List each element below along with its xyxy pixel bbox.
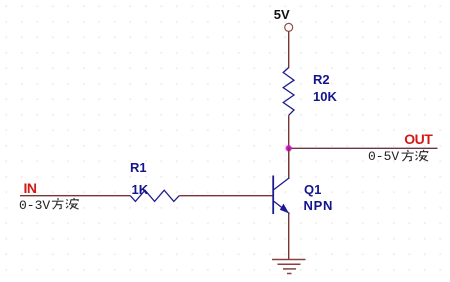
wire collector up — [288, 148, 290, 178]
CJK bo (left) — [66, 198, 79, 209]
value NPN — [304, 198, 334, 213]
wire IN to R1 — [20, 195, 130, 197]
svg-text:0-5V: 0-5V — [368, 149, 399, 164]
value 1K — [132, 182, 149, 197]
transistor Q1 collector stroke — [274, 178, 290, 190]
label R1 — [130, 160, 147, 175]
svg-text:Q1: Q1 — [304, 182, 321, 197]
junction node — [285, 145, 292, 152]
wire junction to collector — [288, 148, 290, 178]
label R2 — [313, 72, 330, 87]
label IN — [24, 180, 37, 196]
wire OUT — [289, 147, 438, 149]
svg-text:R1: R1 — [130, 160, 147, 175]
label 5V — [274, 7, 290, 22]
transistor Q1 emitter stroke — [274, 201, 290, 213]
svg-text:10K: 10K — [313, 89, 337, 104]
wire emitter to ground — [288, 214, 290, 260]
transistor Q1 emitter arrow — [280, 204, 289, 214]
wire R1 to base — [179, 195, 272, 197]
resistor R1 — [130, 190, 179, 201]
resistor R2 — [283, 68, 294, 116]
svg-text:5V: 5V — [274, 7, 290, 22]
net annotation 0-5V square-wave — [368, 149, 399, 164]
transistor Q1 base bar — [272, 176, 274, 215]
svg-text:1K: 1K — [132, 182, 149, 197]
value 10K — [313, 89, 337, 104]
label OUT — [404, 131, 433, 147]
wire 5V circle to R2 top — [288, 32, 290, 69]
CJK fang (left) — [52, 198, 64, 209]
svg-text:OUT: OUT — [404, 131, 433, 147]
svg-text:IN: IN — [24, 180, 37, 196]
CJK fang (right) — [402, 150, 414, 161]
svg-text:NPN: NPN — [304, 198, 334, 213]
wire R2 bottom to junction — [288, 115, 290, 148]
ground — [272, 260, 306, 274]
power terminal 5V circle — [285, 23, 293, 31]
net annotation 0-3V square-wave — [19, 198, 50, 213]
label Q1 — [304, 182, 321, 197]
svg-text:R2: R2 — [313, 72, 330, 87]
svg-text:0-3V: 0-3V — [19, 198, 50, 213]
CJK bo (right) — [416, 150, 429, 161]
